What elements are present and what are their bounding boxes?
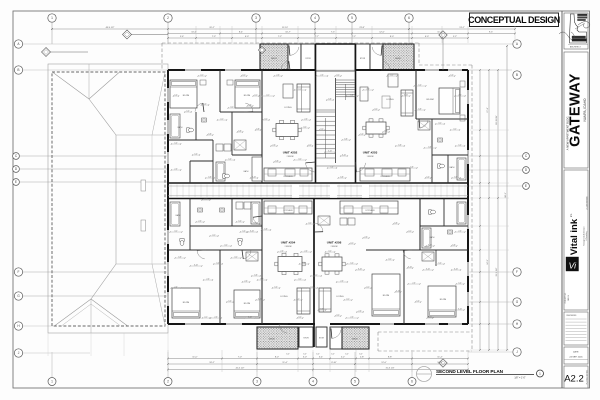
svg-text:5: 5 xyxy=(351,16,353,20)
svg-text:3'-10": 3'-10" xyxy=(342,154,347,156)
svg-text:B: B xyxy=(17,68,19,72)
phase 2 ridge area xyxy=(115,135,117,264)
svg-text:3'-10": 3'-10" xyxy=(258,298,263,300)
svg-text:11'-0": 11'-0" xyxy=(192,357,197,359)
door deck upper-left xyxy=(281,61,289,70)
dining lower-left xyxy=(278,257,302,272)
deck lower-right door zone xyxy=(330,327,342,349)
phase 2 bottom-left wing gable xyxy=(55,299,127,326)
svg-text:5'-0": 5'-0" xyxy=(174,142,178,144)
svg-text:5'-0": 5'-0" xyxy=(302,262,306,264)
top dimension row 1 xyxy=(52,28,515,30)
svg-text:3'-10": 3'-10" xyxy=(328,150,333,152)
svg-text:6'-8": 6'-8" xyxy=(254,274,258,276)
vital ink black logo square xyxy=(566,257,579,271)
svg-text:20'-2": 20'-2" xyxy=(209,27,215,29)
kitchen counter upper-left xyxy=(264,168,312,181)
svg-text:6'-8": 6'-8" xyxy=(394,222,398,224)
svg-text:6'-8": 6'-8" xyxy=(208,176,212,178)
bed 2 upper-left xyxy=(235,80,260,108)
svg-text:A2.2: A2.2 xyxy=(564,374,584,385)
svg-text:2001-14: 2001-14 xyxy=(568,295,570,301)
svg-text:4'-1": 4'-1" xyxy=(220,118,224,120)
svg-text:B: B xyxy=(516,73,518,77)
svg-text:6'-8": 6'-8" xyxy=(275,160,279,162)
drawing title bubble xyxy=(537,370,544,377)
svg-text:3'-2": 3'-2" xyxy=(320,128,324,130)
svg-text:3'-0": 3'-0" xyxy=(303,354,307,356)
bed 2 lower-left xyxy=(234,290,260,318)
svg-text:inc.: inc. xyxy=(570,213,573,217)
svg-text:3'-2": 3'-2" xyxy=(298,278,302,280)
svg-text:31'-3 1/4": 31'-3 1/4" xyxy=(386,368,395,370)
svg-text:2'-6": 2'-6" xyxy=(174,286,178,288)
svg-text:GATEWAY: GATEWAY xyxy=(568,73,584,147)
svg-text:6'-8": 6'-8" xyxy=(248,104,252,106)
exterior wall right xyxy=(467,70,469,324)
svg-text:2'-6": 2'-6" xyxy=(214,316,218,318)
closet upper-right xyxy=(418,121,430,130)
exterior wall bottom xyxy=(168,323,315,325)
phase 2 main hip lines xyxy=(89,99,116,135)
svg-text:2'-6": 2'-6" xyxy=(412,282,416,284)
svg-text:2: 2 xyxy=(167,380,169,384)
svg-text:4'-1": 4'-1" xyxy=(200,74,204,76)
svg-text:LIVING: LIVING xyxy=(280,296,287,298)
svg-text:NAMPA, IDAHO: NAMPA, IDAHO xyxy=(583,98,587,121)
deck lower-left xyxy=(257,327,298,349)
svg-text:10'-7": 10'-7" xyxy=(285,32,291,34)
svg-text:2'-6": 2'-6" xyxy=(174,168,178,170)
svg-text:2 BDRM: 2 BDRM xyxy=(331,246,338,248)
svg-text:6'-8": 6'-8" xyxy=(264,228,268,230)
stair arrows xyxy=(345,84,347,100)
stair rail xyxy=(335,78,337,163)
svg-text:F: F xyxy=(516,270,518,274)
nightstands upper-left xyxy=(200,80,206,85)
stor upper-right xyxy=(355,44,370,70)
svg-text:4'-1": 4'-1" xyxy=(212,234,216,236)
date box xyxy=(564,347,588,364)
sheet number box A2.2 xyxy=(564,366,588,388)
kitchen counter lower-left xyxy=(264,201,312,214)
revisions box xyxy=(564,312,588,345)
svg-text:2'-6": 2'-6" xyxy=(304,250,308,252)
svg-text:2'-6": 2'-6" xyxy=(458,94,462,96)
right dimension columns xyxy=(479,70,481,350)
svg-text:BATH: BATH xyxy=(178,126,183,129)
bath fixtures upper-left xyxy=(170,114,180,138)
closet lower-right xyxy=(422,252,434,261)
svg-text:2'-6": 2'-6" xyxy=(280,250,284,252)
door unit202 entry xyxy=(306,163,315,172)
keynote diamond bottom xyxy=(439,359,447,367)
svg-text:3'-2": 3'-2" xyxy=(204,198,208,200)
svg-text:4'-1": 4'-1" xyxy=(254,94,258,96)
svg-text:6'-8": 6'-8" xyxy=(208,133,212,135)
svg-text:2'-8": 2'-8" xyxy=(360,357,364,359)
svg-text:3'-10": 3'-10" xyxy=(426,268,431,270)
svg-text:7'-2": 7'-2" xyxy=(352,36,356,38)
bottom dimension row 1 xyxy=(168,358,468,360)
door bedroom1 lower-left xyxy=(197,250,205,259)
svg-text:3'-2": 3'-2" xyxy=(453,128,457,130)
svg-text:6'-8": 6'-8" xyxy=(260,278,264,280)
bed 1 lower-right xyxy=(372,274,400,316)
bath fixtures lower-right xyxy=(457,202,466,224)
svg-text:2'-6": 2'-6" xyxy=(458,230,462,232)
svg-text:8'-4": 8'-4" xyxy=(239,32,243,34)
living/bed wall upper-right xyxy=(415,70,417,119)
sofa upper-right xyxy=(401,90,413,116)
svg-text:6'-8": 6'-8" xyxy=(384,130,388,132)
svg-text:6'-8": 6'-8" xyxy=(344,138,348,140)
svg-text:STOR: STOR xyxy=(360,58,366,60)
stair hall top wall xyxy=(316,43,356,45)
exterior wall top xyxy=(168,69,316,71)
svg-text:30'-11 3/4": 30'-11 3/4" xyxy=(496,115,498,125)
door unit203 entry xyxy=(356,163,365,172)
svg-text:6'-8": 6'-8" xyxy=(340,176,344,178)
svg-text:1/8" = 1'-0": 1/8" = 1'-0" xyxy=(514,377,525,379)
svg-text:3: 3 xyxy=(256,380,258,384)
svg-text:5'-0": 5'-0" xyxy=(360,133,364,135)
svg-text:48'-0 1/2": 48'-0 1/2" xyxy=(106,27,115,29)
keynote diamond 1 xyxy=(42,48,51,57)
bath walls lower-right xyxy=(420,225,468,227)
svg-text:BD.RM: BD.RM xyxy=(383,295,390,297)
svg-text:3'-0": 3'-0" xyxy=(303,357,307,359)
phase 2 chimney 1 xyxy=(141,180,146,191)
svg-text:3'-10": 3'-10" xyxy=(458,308,463,310)
svg-text:2'-6": 2'-6" xyxy=(272,144,276,146)
svg-text:4'-1": 4'-1" xyxy=(296,298,300,300)
svg-text:4'-1": 4'-1" xyxy=(366,286,370,288)
svg-text:3'-0": 3'-0" xyxy=(331,354,335,356)
svg-text:3'-10": 3'-10" xyxy=(194,264,199,266)
svg-text:3'-2": 3'-2" xyxy=(336,314,340,316)
door bedroom1 upper-left xyxy=(195,103,203,112)
keynote diamond 3 xyxy=(258,46,265,53)
bedroom walls lower-right xyxy=(403,250,405,324)
bottom dim extensions xyxy=(167,350,169,372)
svg-text:12'-0": 12'-0" xyxy=(381,362,387,364)
svg-text:2'-6": 2'-6" xyxy=(276,74,280,76)
wall between bedrooms upper-left xyxy=(219,70,221,112)
svg-text:2'-6": 2'-6" xyxy=(366,88,370,90)
interior dimension marks xyxy=(201,104,208,106)
phase 2 chimney 2 xyxy=(141,220,146,231)
svg-text:LIVING: LIVING xyxy=(336,296,343,298)
conceptual design stamp xyxy=(470,13,559,27)
svg-text:Vital ink: Vital ink xyxy=(569,218,580,255)
svg-text:PLOTTED: SEP 2001: PLOTTED: SEP 2001 xyxy=(587,370,589,385)
svg-text:3'-2": 3'-2" xyxy=(374,108,378,110)
svg-text:3: 3 xyxy=(255,16,257,20)
svg-text:BATH: BATH xyxy=(176,214,181,217)
corridor door gaps xyxy=(292,184,299,198)
svg-text:24'-5": 24'-5" xyxy=(487,259,489,265)
svg-text:5'-0": 5'-0" xyxy=(228,158,232,160)
svg-text:2 BDRM: 2 BDRM xyxy=(285,246,292,248)
svg-text:5'-0": 5'-0" xyxy=(238,220,242,222)
svg-text:F: F xyxy=(18,270,20,274)
svg-text:2'-6": 2'-6" xyxy=(244,280,248,282)
project name box GATEWAY xyxy=(564,52,588,168)
svg-text:5'-2": 5'-2" xyxy=(453,36,457,38)
door bedroom2 upper-left xyxy=(245,103,253,112)
svg-text:3'-0": 3'-0" xyxy=(286,354,290,356)
bed 2 lower-right xyxy=(428,286,456,317)
svg-text:4'-1": 4'-1" xyxy=(310,286,314,288)
svg-text:2'-6": 2'-6" xyxy=(198,220,202,222)
svg-text:5'-6": 5'-6" xyxy=(180,36,184,38)
svg-text:3'-10": 3'-10" xyxy=(408,266,413,268)
svg-text:5'-0": 5'-0" xyxy=(418,84,422,86)
svg-text:6'-8": 6'-8" xyxy=(238,130,242,132)
svg-text:5'-0": 5'-0" xyxy=(174,94,178,96)
bedroom wall lower-left xyxy=(219,250,221,324)
kitchen counter lower-right xyxy=(340,201,398,214)
stair flight lower xyxy=(316,111,335,113)
bath fixtures lower-left xyxy=(170,202,180,226)
svg-text:8'-8": 8'-8" xyxy=(388,357,392,359)
svg-text:7'-3": 7'-3" xyxy=(212,36,216,38)
svg-text:3'-2": 3'-2" xyxy=(298,316,302,318)
svg-text:UNIT #203: UNIT #203 xyxy=(363,151,378,155)
bottom grid bubbles xyxy=(48,378,56,386)
unit204 entry door xyxy=(253,217,262,225)
svg-text:UNIT #202: UNIT #202 xyxy=(283,151,298,155)
svg-text:5'-0": 5'-0" xyxy=(438,262,442,264)
bottom dimension row 3 xyxy=(168,369,468,371)
svg-text:4'-1": 4'-1" xyxy=(408,230,412,232)
svg-text:ph. 208.000.0000: ph. 208.000.0000 xyxy=(587,196,589,209)
svg-text:6: 6 xyxy=(411,380,413,384)
keynote diamond 4 xyxy=(439,31,447,39)
svg-text:UNIT #208: UNIT #208 xyxy=(327,241,342,245)
svg-text:6'-8": 6'-8" xyxy=(418,108,422,110)
unit208 entry closet xyxy=(318,216,330,225)
svg-text:Management Architecture: Management Architecture xyxy=(583,226,586,245)
coffee table upper-right xyxy=(382,96,390,108)
svg-text:8'-0": 8'-0" xyxy=(275,357,279,359)
svg-text:5'-0": 5'-0" xyxy=(274,286,278,288)
svg-text:3'-0": 3'-0" xyxy=(359,354,363,356)
bottom dimension row 2 xyxy=(168,363,468,365)
svg-text:3'-2": 3'-2" xyxy=(336,74,340,76)
idaho state outline xyxy=(570,14,587,43)
svg-text:3'-2": 3'-2" xyxy=(308,222,312,224)
stamp signature squiggle xyxy=(559,32,574,39)
cabinet upper-right xyxy=(388,74,398,87)
svg-text:5'-0": 5'-0" xyxy=(416,300,420,302)
svg-text:BATH: BATH xyxy=(244,170,249,173)
svg-text:6'-8": 6'-8" xyxy=(178,256,182,258)
svg-text:4'-1": 4'-1" xyxy=(346,298,350,300)
svg-text:3'-2": 3'-2" xyxy=(264,118,268,120)
svg-text:4'-1": 4'-1" xyxy=(242,74,246,76)
svg-text:7'-2": 7'-2" xyxy=(278,36,282,38)
kitchen side counter upper-left xyxy=(252,157,262,181)
svg-text:3'-10": 3'-10" xyxy=(358,268,363,270)
svg-text:6'-8": 6'-8" xyxy=(328,98,332,100)
bath walls upper-left xyxy=(168,139,213,141)
svg-text:BATH: BATH xyxy=(450,166,455,169)
svg-text:2'-6": 2'-6" xyxy=(206,278,210,280)
door bedroom upper-right xyxy=(420,120,428,128)
svg-text:3'-10": 3'-10" xyxy=(404,94,409,96)
title block divider xyxy=(561,11,563,388)
svg-text:BD.RM: BD.RM xyxy=(244,303,251,305)
svg-text:7'-5": 7'-5" xyxy=(331,32,335,34)
svg-text:5'-0": 5'-0" xyxy=(330,166,334,168)
svg-text:4'-1": 4'-1" xyxy=(298,88,302,90)
stor door upper-left xyxy=(288,44,301,70)
svg-text:PROJECT NO.: PROJECT NO. xyxy=(565,292,567,303)
svg-text:4'-1": 4'-1" xyxy=(350,242,354,244)
svg-text:18'-2": 18'-2" xyxy=(209,362,215,364)
svg-text:CONCEPTUAL DESIGN: CONCEPTUAL DESIGN xyxy=(468,15,560,25)
svg-text:3'-2": 3'-2" xyxy=(224,244,228,246)
svg-text:BD.RM: BD.RM xyxy=(183,302,190,304)
svg-text:6'-0": 6'-0" xyxy=(245,36,249,38)
stor lower-left xyxy=(299,327,313,347)
living wall lower-left xyxy=(261,199,263,325)
svg-text:KITCHEN: KITCHEN xyxy=(381,176,390,178)
svg-text:2 BDRM: 2 BDRM xyxy=(287,156,294,158)
svg-text:LIVING: LIVING xyxy=(284,107,291,109)
phase2 bottom extensions xyxy=(47,333,49,356)
bed 1 lower-left xyxy=(172,288,200,318)
svg-text:3'-0": 3'-0" xyxy=(316,354,320,356)
architect stamp logo box xyxy=(564,13,588,49)
svg-text:DECK: DECK xyxy=(395,58,401,60)
svg-text:2'-6": 2'-6" xyxy=(350,316,354,318)
svg-text:11'-10": 11'-10" xyxy=(282,27,289,29)
wd lower-left xyxy=(236,202,243,209)
door deck lower-left xyxy=(279,324,287,333)
closet lower-left xyxy=(246,252,258,261)
deck upper-left xyxy=(260,44,288,70)
dining lower-right xyxy=(322,257,342,271)
svg-text:DECK: DECK xyxy=(269,339,275,341)
sofa upper-left living xyxy=(297,84,310,112)
svg-text:10'-6": 10'-6" xyxy=(437,362,443,364)
right grid bubbles xyxy=(513,40,521,48)
wd upper-left xyxy=(216,144,223,151)
drawing title circle xyxy=(417,367,432,382)
svg-text:E: E xyxy=(15,180,17,184)
svg-text:27'-6": 27'-6" xyxy=(487,107,489,113)
svg-text:3'-0": 3'-0" xyxy=(345,354,349,356)
svg-text:STOR: STOR xyxy=(303,338,309,340)
kitchen counter upper-right xyxy=(360,168,410,181)
svg-text:3'-2": 3'-2" xyxy=(234,256,238,258)
deck upper-right xyxy=(383,44,414,70)
top dim extensions xyxy=(167,26,169,43)
wd lower-right xyxy=(340,218,347,225)
left grid bubbles xyxy=(14,40,22,48)
svg-text:5'-0": 5'-0" xyxy=(186,110,190,112)
svg-text:BD.RM: BD.RM xyxy=(426,99,433,101)
svg-text:7'-0": 7'-0" xyxy=(238,357,242,359)
svg-text:4'-1": 4'-1" xyxy=(314,274,318,276)
svg-text:6: 6 xyxy=(408,16,410,20)
svg-text:23'-8": 23'-8" xyxy=(359,27,365,29)
dining upper-right xyxy=(366,122,386,134)
svg-text:3'-10": 3'-10" xyxy=(250,230,255,232)
svg-text:6'-8": 6'-8" xyxy=(398,144,402,146)
svg-text:E: E xyxy=(525,184,527,188)
svg-text:5'-0": 5'-0" xyxy=(458,144,462,146)
svg-text:4'-1": 4'-1" xyxy=(204,316,208,318)
svg-text:DECK: DECK xyxy=(352,339,358,341)
svg-text:5'-0": 5'-0" xyxy=(450,74,454,76)
svg-text:3'-2": 3'-2" xyxy=(438,122,442,124)
corridor cross ticks xyxy=(170,185,172,198)
svg-text:3'-10": 3'-10" xyxy=(396,290,401,292)
svg-text:SECOND LEVEL FLOOR PLAN: SECOND LEVEL FLOOR PLAN xyxy=(436,369,504,374)
svg-text:5'-0": 5'-0" xyxy=(203,103,207,105)
svg-text:2'-6": 2'-6" xyxy=(304,118,308,120)
svg-text:BD.RM: BD.RM xyxy=(440,299,447,301)
svg-text:5'-0": 5'-0" xyxy=(350,262,354,264)
svg-text:2: 2 xyxy=(167,16,169,20)
party wall lower units xyxy=(313,199,315,348)
unit208 entry door xyxy=(315,223,323,232)
svg-text:6'-8": 6'-8" xyxy=(454,176,458,178)
vital ink firm box xyxy=(564,170,588,310)
stor upper-left xyxy=(301,44,315,70)
svg-text:BATH: BATH xyxy=(430,236,435,239)
exterior wall left xyxy=(167,70,169,324)
top dimension row 2 xyxy=(168,33,515,35)
svg-text:3'-2": 3'-2" xyxy=(303,126,307,128)
top grid risers xyxy=(51,22,53,44)
svg-text:60'-2": 60'-2" xyxy=(505,192,507,198)
svg-text:5'-0": 5'-0" xyxy=(228,300,232,302)
svg-text:11'-4": 11'-4" xyxy=(437,357,442,359)
stair flight upper xyxy=(336,79,355,81)
horizontal grid lines xyxy=(23,43,512,45)
svg-text:9'-5": 9'-5" xyxy=(489,32,493,34)
svg-text:3'-2": 3'-2" xyxy=(298,158,302,160)
svg-text:42'-5 1/2": 42'-5 1/2" xyxy=(236,368,245,370)
svg-text:1: 1 xyxy=(51,16,53,20)
svg-text:KITCHEN: KITCHEN xyxy=(366,210,375,212)
svg-text:2'-6": 2'-6" xyxy=(364,236,368,238)
svg-text:1: 1 xyxy=(51,380,53,384)
bath walls upper-right xyxy=(431,119,433,183)
svg-text:4'-1": 4'-1" xyxy=(308,144,312,146)
svg-text:12'-0": 12'-0" xyxy=(379,32,385,34)
svg-text:4: 4 xyxy=(314,16,316,20)
svg-text:KITCHEN: KITCHEN xyxy=(284,176,293,178)
mid corridor north wall xyxy=(168,182,468,184)
stamp text bars top xyxy=(578,14,588,16)
svg-text:REVISIONS: REVISIONS xyxy=(567,315,578,317)
right dim extensions xyxy=(470,69,509,71)
stamp text bars middle xyxy=(572,36,586,38)
svg-text:KITCHEN: KITCHEN xyxy=(284,210,293,212)
door deck upper-right xyxy=(382,61,390,70)
bed 1 upper-left xyxy=(170,80,197,108)
svg-text:2'-6": 2'-6" xyxy=(320,74,324,76)
svg-text:DATE:: DATE: xyxy=(573,351,579,354)
svg-text:5'-0": 5'-0" xyxy=(428,316,432,318)
svg-text:2'-6": 2'-6" xyxy=(340,280,344,282)
